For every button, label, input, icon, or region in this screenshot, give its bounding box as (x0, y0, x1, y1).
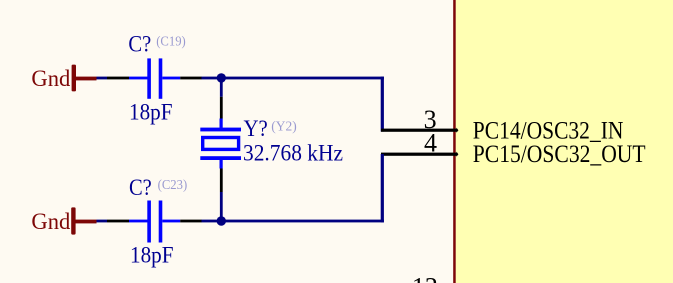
capacitor C23 left plate (147, 201, 151, 243)
pin 3 line tip (457, 128, 459, 133)
crystal Y2 top lead stub (220, 119, 223, 128)
capacitor C19 left lead (129, 77, 148, 80)
svg-text:PC15/OSC32_OUT: PC15/OSC32_OUT (473, 141, 646, 168)
svg-text:32.768 kHz: 32.768 kHz (243, 141, 343, 166)
pin 1 of Y2 (black) (220, 97, 223, 119)
pin 4 line of IC (381, 153, 457, 156)
junction dot (top) (217, 73, 226, 82)
pin 2 of C23 (black) (180, 220, 202, 223)
power port Gnd (bottom) lead (75, 220, 96, 224)
power port Gnd (top) bar symbol (72, 65, 76, 92)
capacitor C23 left lead (129, 220, 148, 223)
power port Gnd (bottom) bar symbol (71, 207, 75, 234)
pin 4 line tip (457, 152, 459, 157)
svg-text:12: 12 (412, 273, 438, 283)
pin 1 of C23 (black) (107, 220, 129, 223)
capacitor C19 left plate (147, 58, 151, 98)
wire: top horizontal navy from junction to right (202, 77, 384, 80)
svg-text:(C23): (C23) (158, 178, 188, 193)
wire: navy above bottom junction (220, 192, 223, 221)
svg-text:Y?: Y? (244, 116, 268, 141)
pin 2 of Y2 (black) (220, 169, 223, 193)
svg-text:(C19): (C19) (156, 35, 186, 50)
wire: navy below top junction (220, 78, 223, 97)
wire: right vertical from pin 4 down to bottom net (381, 154, 384, 222)
crystal Y2 bottom lead stub (220, 160, 223, 169)
IC body left border (453, 0, 456, 283)
crystal Y2 top plate (200, 128, 241, 132)
capacitor C23 right plate (159, 201, 163, 243)
svg-text:C?: C? (129, 175, 152, 200)
svg-text:Gnd: Gnd (31, 209, 70, 234)
wire: Gnd to C23 pin1 (navy stub) (97, 220, 108, 223)
svg-text:4: 4 (424, 128, 437, 157)
svg-text:C?: C? (128, 32, 151, 57)
IC U? sheet body (yellow part body) (456, 0, 673, 283)
capacitor C19 right plate (159, 58, 163, 98)
pin 1 of C19 (black) (107, 77, 129, 80)
wire: right vertical down to pin 3 (381, 77, 384, 132)
capacitor C19 right lead (162, 77, 180, 80)
power port Gnd (top) lead (76, 77, 97, 81)
junction dot (bottom) (217, 216, 226, 225)
svg-text:(Y2): (Y2) (271, 120, 297, 135)
capacitor C23 right lead (162, 220, 180, 223)
svg-text:18pF: 18pF (129, 100, 173, 125)
svg-text:18pF: 18pF (130, 242, 174, 267)
crystal Y2 body rectangle (203, 138, 239, 150)
pin 2 of C19 (black) (180, 77, 202, 80)
crystal Y2 bottom plate (200, 156, 241, 160)
pin 3 line of IC (381, 129, 457, 132)
wire: bottom horizontal navy from junction to right (202, 220, 384, 223)
svg-text:Gnd: Gnd (31, 66, 70, 91)
wire: Gnd to C19 pin1 (navy stub) (97, 77, 108, 80)
